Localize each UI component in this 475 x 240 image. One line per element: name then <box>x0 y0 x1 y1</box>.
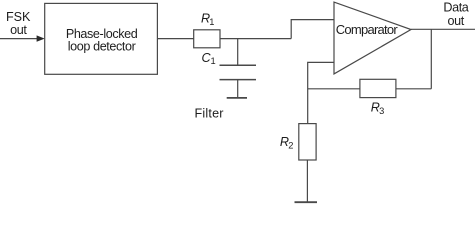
ground (filter) <box>227 97 247 99</box>
capacitor C1 top plate <box>220 64 257 66</box>
svg-text:FSK: FSK <box>6 10 31 24</box>
svg-text:Filter: Filter <box>195 106 224 120</box>
resistor R1 <box>194 30 220 48</box>
svg-text:1: 1 <box>209 17 214 27</box>
capacitor C1 bottom plate <box>220 79 257 81</box>
svg-text:out: out <box>10 23 27 37</box>
svg-text:Data: Data <box>443 0 468 14</box>
wire feedback from output down to R3 <box>430 29 432 89</box>
svg-text:Comparator: Comparator <box>336 22 399 37</box>
svg-text:3: 3 <box>379 106 384 116</box>
wire node A down to C1 <box>237 39 239 66</box>
resistor R3 <box>360 79 396 97</box>
wire C1 to ground <box>237 80 239 98</box>
wire R1 to comparator step, node A <box>220 38 291 40</box>
block U1 phase-locked loop detector <box>45 3 158 74</box>
op-amp U2 comparator <box>334 2 411 74</box>
svg-text:1: 1 <box>211 56 216 66</box>
wire comparator output to Data out <box>411 28 475 30</box>
wire input arrow into PLL detector <box>0 38 38 40</box>
wire R3 left lead to node B <box>308 88 360 90</box>
wire R3 right lead <box>396 88 431 90</box>
ground <box>295 201 318 203</box>
wire R2 to ground <box>306 160 308 202</box>
wire step up to comparator + input <box>291 20 334 39</box>
resistor R2 <box>299 124 316 160</box>
wire PLL output to R1 <box>157 38 193 40</box>
svg-text:loop detector: loop detector <box>68 40 136 54</box>
wire comparator - input step <box>308 62 334 123</box>
svg-text:2: 2 <box>288 141 293 151</box>
svg-text:out: out <box>448 14 465 28</box>
